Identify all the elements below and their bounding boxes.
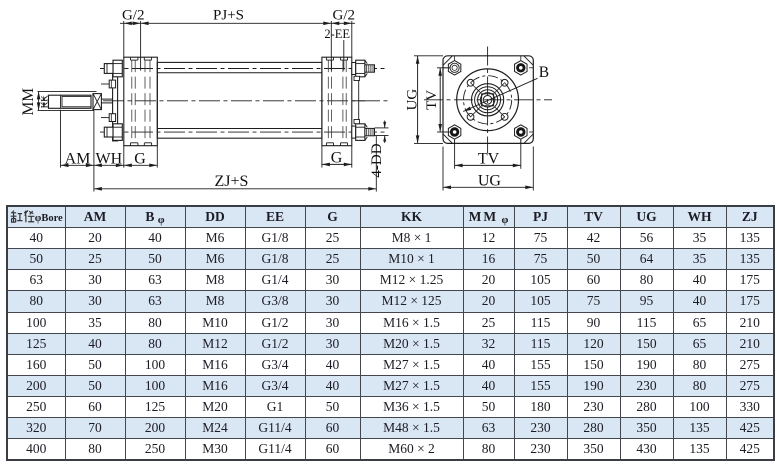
svg-text:UG: UG <box>405 89 421 111</box>
svg-text:G: G <box>331 150 343 167</box>
svg-text:G/2: G/2 <box>333 8 356 24</box>
svg-text:B: B <box>539 64 549 81</box>
svg-text:G: G <box>134 151 146 168</box>
svg-text:TV: TV <box>478 150 500 167</box>
svg-text:2-EE: 2-EE <box>324 27 350 41</box>
svg-text:WH: WH <box>95 151 122 168</box>
svg-text:AM: AM <box>65 151 91 168</box>
svg-text:MM: MM <box>20 88 37 116</box>
svg-text:KK: KK <box>39 95 49 108</box>
svg-text:UG: UG <box>478 172 502 189</box>
svg-text:4-DD: 4-DD <box>369 143 385 177</box>
svg-text:TV: TV <box>424 90 440 110</box>
svg-text:G/2: G/2 <box>122 8 145 24</box>
svg-text:PJ+S: PJ+S <box>213 8 244 24</box>
svg-text:ZJ+S: ZJ+S <box>215 173 249 190</box>
